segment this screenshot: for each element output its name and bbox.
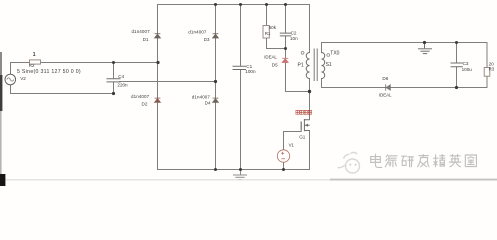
wire C2 column bbox=[285, 5, 287, 49]
node C4 bottom bbox=[112, 92, 115, 95]
svg-text:D4: D4 bbox=[205, 101, 211, 106]
svg-text:TX0: TX0 bbox=[330, 50, 339, 56]
node bottom rail D4 bbox=[214, 168, 217, 171]
wire mosfet source down bbox=[309, 131, 311, 170]
diode D1 bbox=[155, 34, 161, 38]
resistor R3 load bbox=[484, 68, 490, 77]
svg-text:D2: D2 bbox=[142, 102, 148, 107]
wire R1 column bbox=[266, 5, 268, 49]
node drain bbox=[308, 90, 311, 93]
svg-text:R1: R1 bbox=[265, 31, 271, 36]
transformer core bbox=[314, 49, 317, 82]
wire C4 drop bbox=[113, 63, 115, 94]
svg-text:V1: V1 bbox=[289, 143, 295, 148]
wire top rail bbox=[158, 4, 310, 6]
capacitor C4 bbox=[107, 79, 121, 82]
transformer TX0 primary winding P1 bbox=[306, 53, 309, 79]
transformer secondary winding S1 bbox=[322, 53, 325, 79]
resistor R1 bbox=[263, 26, 269, 39]
transformer secondary phase dot bbox=[327, 54, 330, 57]
ground (secondary top rail) bbox=[418, 43, 432, 54]
ac source V2 bbox=[5, 74, 16, 85]
svg-text:IDEAL: IDEAL bbox=[264, 54, 277, 59]
svg-text:d1n4007: d1n4007 bbox=[192, 94, 211, 99]
node C4 top bbox=[112, 61, 115, 64]
wire input top bbox=[11, 63, 159, 75]
svg-text:100u: 100u bbox=[462, 67, 473, 72]
pulse source V1 bbox=[277, 150, 289, 162]
svg-text:V2: V2 bbox=[20, 76, 26, 81]
node sec rail C3 top bbox=[455, 41, 458, 44]
svg-text:C2: C2 bbox=[291, 31, 297, 36]
svg-text:R3: R3 bbox=[489, 67, 495, 72]
svg-text:d1n4007: d1n4007 bbox=[131, 94, 150, 99]
svg-text:100n: 100n bbox=[245, 69, 256, 74]
node top rail C2 bbox=[284, 3, 287, 6]
svg-text:50k: 50k bbox=[269, 25, 277, 30]
svg-text:D5: D5 bbox=[272, 62, 278, 67]
node top rail R1 bbox=[265, 3, 268, 6]
svg-text:C4: C4 bbox=[118, 74, 124, 79]
svg-text:IDEAL: IDEAL bbox=[379, 92, 392, 97]
ground (primary side) bbox=[233, 170, 247, 180]
node bottom rail C1-ground bbox=[239, 168, 242, 171]
svg-text:d1n4007: d1n4007 bbox=[132, 29, 151, 34]
watermark underline right bbox=[330, 179, 497, 181]
svg-text:C1: C1 bbox=[246, 64, 252, 69]
diode D3 bbox=[213, 34, 219, 38]
wire D1 column bbox=[157, 5, 159, 170]
svg-text:R2: R2 bbox=[29, 63, 35, 68]
diode D5 bbox=[282, 58, 288, 62]
wire gate from V1 bbox=[284, 122, 302, 132]
svg-text:D3: D3 bbox=[204, 37, 210, 42]
mosfet M1 bbox=[301, 119, 310, 131]
svg-text:5 Sine(0 311 127 50 0 0): 5 Sine(0 311 127 50 0 0) bbox=[17, 69, 81, 75]
node bottom rail V1 bbox=[282, 168, 285, 171]
capacitor C3 bbox=[451, 63, 463, 67]
node top rail D3 bbox=[214, 3, 217, 6]
svg-text:C3: C3 bbox=[463, 61, 469, 66]
svg-text:P1: P1 bbox=[298, 63, 304, 69]
capacitor C2 bbox=[280, 33, 292, 36]
wire C1 column bbox=[240, 5, 242, 170]
svg-text:d1n4007: d1n4007 bbox=[188, 29, 207, 34]
wire bottom rail bbox=[158, 169, 310, 171]
corner black mark bbox=[0, 174, 5, 186]
label gate-drive annotation (red CJK, drawn as strokes) bbox=[296, 110, 312, 114]
wire secondary top bbox=[322, 43, 488, 53]
wire primary drain column bbox=[309, 5, 311, 120]
node snubber D5 bbox=[284, 47, 287, 50]
wire V1 column bbox=[283, 132, 285, 170]
diode D4 bbox=[213, 98, 219, 102]
wire C4 to bridge right bbox=[120, 81, 216, 83]
svg-text:S1: S1 bbox=[326, 62, 332, 68]
node bridge right mid bbox=[214, 80, 217, 83]
node bridge left mid bbox=[156, 61, 159, 64]
node top rail C1 bbox=[239, 3, 242, 6]
watermark underline left bbox=[5, 179, 330, 180]
wire snubber joint bbox=[267, 48, 286, 50]
svg-text:10n: 10n bbox=[290, 36, 298, 41]
diode D2 bbox=[155, 98, 161, 102]
svg-text:G1: G1 bbox=[299, 134, 306, 139]
wire secondary bottom bbox=[322, 79, 488, 88]
svg-text:D6: D6 bbox=[382, 76, 388, 81]
node sec rail ground bbox=[423, 41, 426, 44]
diode D6 bbox=[386, 84, 391, 90]
capacitor C1 bbox=[233, 66, 247, 69]
resistor R2 bbox=[30, 60, 41, 64]
svg-text:220n: 220n bbox=[117, 83, 128, 88]
watermark text bbox=[371, 154, 477, 167]
wire D5 column bbox=[286, 49, 310, 92]
transformer primary phase dot bbox=[301, 51, 304, 54]
wire C3 column bbox=[456, 43, 458, 88]
svg-text:1: 1 bbox=[33, 52, 36, 58]
left edge dark bar bbox=[0, 52, 2, 75]
node sec rail C3 bottom bbox=[455, 86, 458, 89]
wire D3 column bbox=[215, 5, 217, 170]
svg-text:D1: D1 bbox=[143, 37, 149, 42]
watermark logo bbox=[338, 152, 360, 173]
wire input bottom bbox=[11, 85, 114, 94]
wire load column bbox=[486, 43, 488, 88]
